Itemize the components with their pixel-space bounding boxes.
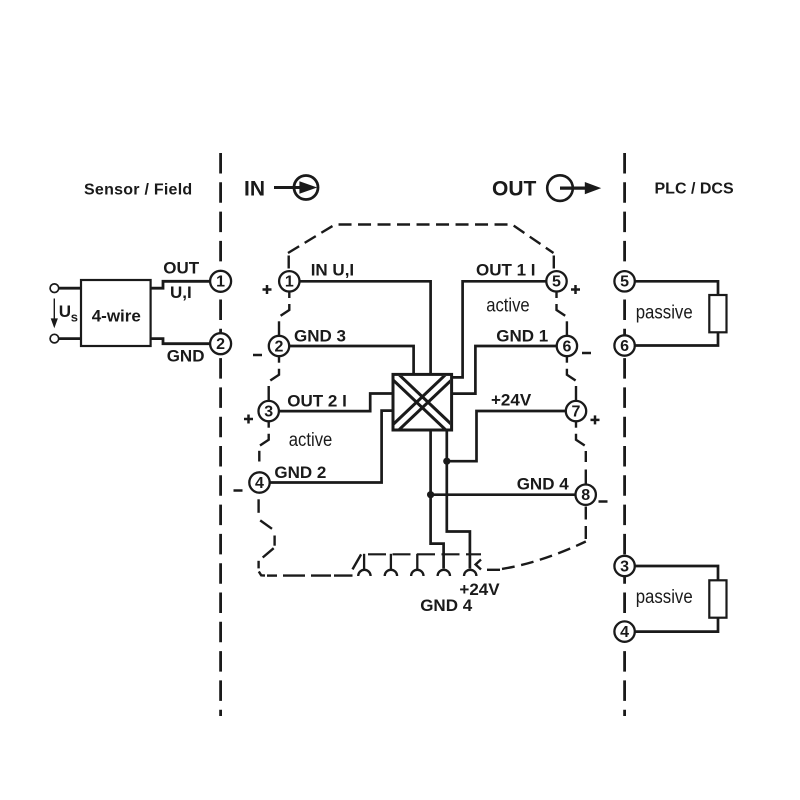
wire resistor to PLC terminal 6 [635,332,718,345]
wire OUT 2 I terminal 3 to isolator [279,394,394,412]
polarity + at terminal 1 [263,285,272,294]
enclosure dashes between terminal 2 and 3 [269,357,279,401]
enclosure dashes between terminal 1 and 2 [279,292,289,336]
svg-text:6: 6 [562,338,571,355]
wire PLC terminal 3 to resistor [635,566,718,580]
source terminal circle bottom [50,334,59,343]
terminal 6 module [557,336,577,356]
polarity - at terminal 2 [253,354,262,357]
terminal 1 module [279,271,299,291]
enclosure bottom right dash [487,569,500,571]
svg-text:1: 1 [285,274,294,291]
svg-text:1: 1 [216,274,225,291]
svg-text:2: 2 [275,338,284,355]
wire +24V terminal 7 branch [447,411,566,461]
enclosure bottom right diagonal dashed [502,542,586,569]
wire PLC terminal 5 to resistor [635,281,718,295]
OUT icon circle [547,175,573,201]
svg-text:OUT: OUT [492,178,537,201]
PLC terminal 5 [614,271,634,291]
svg-text:U,I: U,I [170,283,192,302]
source terminal circle top [50,284,59,293]
polarity + at terminal 7 [591,415,600,424]
OUT icon arrow line [560,186,587,189]
voltage arrow Us head [51,318,58,328]
svg-text:4-wire: 4-wire [92,307,141,326]
junction node GND 4 [427,491,434,498]
wire resistor to PLC terminal 4 [635,618,718,632]
enclosure dashes between terminal 6 and 7 [567,357,576,401]
wire 4-wire box to terminal 2 [151,339,211,344]
svg-text:passive: passive [636,302,693,323]
DIN rail connector socket 3 [411,570,423,576]
voltage arrow Us line [53,299,55,321]
wire GND 2 terminal 4 to isolator [270,411,394,483]
polarity + at terminal 5 [571,285,580,294]
wire GND 1 terminal 6 to isolator [451,346,557,394]
boundary dashed line PLC/DCS [623,153,626,716]
svg-text:OUT: OUT [163,259,200,278]
svg-text:Sensor / Field: Sensor / Field [84,182,192,199]
polarity - at terminal 4 [234,489,243,492]
svg-text:7: 7 [572,404,581,421]
boundary dashed line Sensor/Field [219,153,222,716]
wire OUT 1 I terminal 5 to isolator [451,281,546,377]
svg-text:8: 8 [581,487,590,504]
junction node +24V [443,458,450,465]
svg-text:IN: IN [244,178,265,201]
isolator X-box U1 [390,372,454,433]
terminal 5 module [546,271,566,291]
svg-text:6: 6 [620,338,629,355]
resistor R2 [709,580,726,617]
wire isolator bottom to DIN connector 5 [447,429,470,569]
svg-text:passive: passive [636,587,693,608]
wire GND 4 terminal 8 branch [431,493,575,496]
svg-text:2: 2 [216,336,225,353]
svg-text:GND 4: GND 4 [517,475,570,494]
svg-text:GND 3: GND 3 [294,326,346,345]
PLC terminal 3 [614,556,634,576]
terminal 2 sensor side [210,333,231,354]
terminal 2 module [269,336,289,356]
enclosure bottom edge dashes [267,574,353,576]
svg-text:active: active [289,430,333,451]
wire GND 3 terminal 2 to isolator [289,346,413,375]
enclosure slash kink at DIN connector left [353,554,362,569]
svg-text:OUT 1 I: OUT 1 I [476,261,536,280]
IN icon arrowhead [299,181,317,194]
svg-text:U: U [59,302,71,321]
svg-text:GND 2: GND 2 [274,463,326,482]
DIN rail connector socket 2 [385,570,397,576]
polarity - at terminal 8 [599,500,608,503]
enclosure dash above terminal 1 [288,256,290,269]
terminal 8 module [576,485,596,505]
PLC terminal 6 [614,335,634,355]
svg-text:s: s [71,310,78,325]
svg-text:GND 4: GND 4 [420,596,473,615]
resistor R1 [709,295,726,332]
svg-text:3: 3 [620,558,629,575]
svg-text:5: 5 [620,274,629,291]
PLC terminal 4 [614,621,634,641]
terminal 3 module [259,401,279,421]
wire IN U,I terminal 1 to isolator [300,281,431,375]
OUT icon arrowhead [585,182,601,194]
svg-text:OUT 2 I: OUT 2 I [287,391,347,410]
IN icon arrow line [274,186,300,189]
DIN rail connector socket 1 [358,570,370,576]
terminal 4 module [249,472,269,492]
polarity + at terminal 3 [244,415,253,424]
svg-text:+24V: +24V [491,390,532,409]
wire source bottom to 4-wire box [59,337,82,340]
svg-text:4: 4 [620,624,629,641]
module enclosure dashed outline top [288,225,554,254]
enclosure dashes between terminal 3 and 4 [259,422,268,462]
svg-text:active: active [486,296,530,317]
wire isolator bottom to DIN connector 4 [431,429,444,569]
svg-text:IN U,I: IN U,I [311,261,354,280]
enclosure dashes between terminal 5 and 6 [557,292,567,336]
transmitter 4-wire box [81,280,151,346]
svg-text:5: 5 [552,274,561,291]
enclosure zigzag below terminal 4 [259,499,275,575]
enclosure dash above terminal 5 [553,256,555,269]
enclosure dashes below terminal 8 [585,507,587,542]
polarity - at terminal 6 [582,352,591,355]
wire source top to 4-wire box [59,287,82,290]
wire 4-wire box to terminal 1 [151,281,211,288]
svg-text:4: 4 [255,475,264,492]
enclosure chevron kink at DIN connector right [476,560,481,570]
DIN rail connector socket 5 [464,570,476,576]
terminal 7 module [566,401,586,421]
enclosure dashed line through DIN connector [368,553,481,555]
svg-text:GND 1: GND 1 [496,327,548,346]
svg-text:GND: GND [167,347,205,366]
DIN rail connector socket 4 [438,570,450,576]
terminal 1 sensor side [210,271,231,292]
svg-text:3: 3 [264,404,273,421]
IN icon circle [294,176,318,200]
svg-text:PLC / DCS: PLC / DCS [655,181,734,198]
enclosure dashes between terminal 7 and 8 [576,422,586,485]
